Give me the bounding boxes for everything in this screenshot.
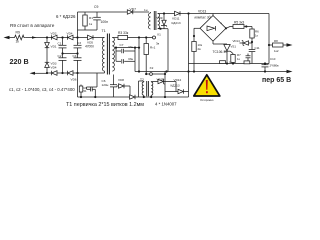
svg-text:Т2: Т2 — [140, 78, 144, 82]
capacitor C12 — [246, 54, 251, 64]
capacitor C3 — [74, 38, 82, 54]
svg-text:VD4: VD4 — [51, 66, 57, 70]
R1/C9 snubber loop — [78, 12, 128, 38]
wire from C4 column down — [77, 73, 79, 97]
svg-text:VD12: VD12 — [174, 78, 182, 82]
svg-text:VD6: VD6 — [71, 78, 77, 82]
wire — [86, 87, 88, 89]
bridge rectifier VD13 — [200, 14, 226, 42]
capacitor C11 — [249, 46, 260, 64]
capacitor C9 — [93, 5, 108, 30]
resistor R7 — [231, 53, 241, 65]
node — [138, 36, 140, 38]
svg-text:Осторожно: Осторожно — [200, 98, 214, 102]
svg-text:VD7: VD7 — [130, 8, 137, 12]
node — [61, 72, 63, 74]
vertical column with VD1 VD3 — [46, 38, 48, 43]
svg-text:пер 65 В: пер 65 В — [262, 77, 291, 84]
wire — [46, 68, 48, 74]
svg-text:R1: R1 — [89, 16, 93, 20]
svg-text:33н: 33н — [128, 45, 133, 49]
resistor R10 column inside box left — [192, 28, 203, 71]
wire x97 — [96, 73, 98, 87]
small box on bottom edge — [220, 60, 250, 64]
svg-text:Rт1: Rт1 — [150, 46, 156, 50]
svg-text:2в: 2в — [198, 47, 202, 51]
svg-text:6 * КД226: 6 * КД226 — [56, 14, 76, 19]
diode on bottom rail — [130, 95, 136, 99]
bottom rail — [78, 96, 189, 98]
capacitor C4 — [73, 54, 82, 74]
svg-text:с1, с2 - 1.0*400, с3, с4 - 0.4: с1, с2 - 1.0*400, с3, с4 - 0.47*400 — [9, 87, 75, 92]
resistor R9 — [13, 31, 25, 44]
output arrow bottom — [287, 70, 293, 73]
svg-text:С4: С4 — [73, 54, 77, 58]
svg-text:Х2: Х2 — [150, 66, 154, 70]
input terminal arrow bottom — [30, 72, 48, 75]
svg-text:Х1: Х1 — [157, 33, 161, 37]
svg-text:VD9: VD9 — [157, 16, 163, 20]
svg-text:120н: 120н — [102, 83, 109, 87]
capacitor C6a — [87, 87, 96, 97]
capacitor C10 — [262, 57, 280, 73]
transformer T2 — [139, 78, 153, 97]
capacitor C7 — [116, 43, 135, 53]
warning triangle — [194, 75, 220, 102]
connector circle X2 — [150, 66, 154, 76]
node — [225, 27, 227, 29]
top wire into box — [180, 13, 269, 15]
node — [46, 36, 48, 38]
svg-text:R9: R9 — [16, 31, 20, 35]
svg-text:1к: 1к — [16, 40, 20, 44]
svg-text:100н: 100н — [101, 20, 109, 24]
svg-text:VD10: VD10 — [157, 77, 165, 81]
node — [193, 70, 195, 72]
wire to bridge — [26, 37, 48, 39]
wire — [46, 48, 48, 62]
svg-text:С7: С7 — [120, 43, 124, 47]
svg-text:VD14: VD14 — [233, 39, 241, 43]
zener VD9 — [157, 12, 167, 28]
capacitor C8 — [116, 57, 135, 64]
regulator box outline — [189, 14, 270, 64]
svg-text:+: + — [220, 22, 222, 26]
wire X2 to node — [146, 72, 166, 76]
top rail — [47, 37, 88, 39]
capacitor C6 — [102, 75, 118, 98]
svg-text:С10: С10 — [270, 57, 276, 61]
node — [76, 36, 78, 38]
bottom rail wire — [47, 72, 105, 74]
thyristor VS1 — [213, 41, 237, 65]
C7 C8 loop — [115, 47, 140, 62]
svg-text:4 * 1N4007: 4 * 1N4007 — [155, 101, 177, 106]
svg-text:VD8: VD8 — [118, 78, 124, 82]
svg-text:С9: С9 — [94, 5, 98, 9]
svg-text:R8: R8 — [274, 39, 278, 43]
resistor R1 — [83, 12, 93, 30]
svg-text:С11: С11 — [255, 46, 260, 50]
diode VD5 top-right — [85, 35, 94, 48]
svg-text:1к2: 1к2 — [274, 49, 279, 53]
svg-text:С1: С1 — [58, 42, 62, 46]
node — [76, 52, 78, 54]
connector circle X1 — [153, 33, 162, 40]
diode VD7 — [127, 8, 149, 15]
node — [187, 12, 189, 14]
wire feedback return — [156, 29, 168, 72]
input terminal arrow top — [4, 36, 14, 39]
node — [94, 96, 96, 98]
node — [76, 72, 78, 74]
capacitor C1 — [58, 38, 67, 54]
svg-text:С3: С3 — [77, 41, 81, 45]
svg-text:33н: 33н — [128, 57, 133, 61]
vertical return wire x188 — [188, 14, 190, 98]
svg-text:VD4: VD4 — [67, 31, 73, 35]
svg-text:КД213: КД213 — [171, 84, 180, 88]
diode VD2 — [51, 31, 58, 40]
node — [61, 36, 63, 38]
svg-text:VD1: VD1 — [51, 45, 57, 49]
svg-text:3в: 3в — [156, 42, 160, 46]
diode VD6 — [68, 71, 77, 82]
svg-text:компас 3д: компас 3д — [195, 15, 211, 19]
feedback transformer T3 — [149, 11, 169, 30]
zener VD14 — [233, 39, 253, 46]
node — [150, 96, 152, 98]
resistor R5 — [226, 20, 252, 28]
wire vertical x139 — [138, 38, 140, 72]
node — [159, 28, 161, 30]
wire — [134, 61, 136, 71]
svg-text:R3 33к: R3 33к — [118, 31, 129, 35]
svg-text:VD2: VD2 — [51, 31, 57, 35]
svg-text:VD13: VD13 — [198, 9, 206, 13]
mid wire between cap columns — [63, 53, 78, 55]
resistor R6 — [250, 27, 259, 50]
svg-text:220 В: 220 В — [10, 57, 29, 66]
transformer T1 — [93, 29, 117, 75]
svg-text:R5 3к3: R5 3к3 — [234, 20, 244, 24]
output node and R8 — [268, 39, 293, 53]
node — [138, 70, 140, 72]
node — [143, 96, 145, 98]
diode VD8 — [117, 78, 131, 97]
node — [61, 52, 63, 54]
svg-text:С2: С2 — [58, 54, 62, 58]
svg-text:VS1: VS1 — [231, 45, 237, 49]
diode VD1 — [45, 43, 57, 49]
wire T2 left feed — [138, 81, 140, 97]
svg-text:2*680в: 2*680в — [270, 64, 280, 68]
wire to VD11 — [164, 13, 175, 15]
node — [46, 72, 48, 74]
svg-text:Т1: Т1 — [102, 29, 106, 33]
resistor R3 — [117, 31, 153, 39]
node — [165, 70, 167, 72]
diode VD12 — [165, 78, 189, 94]
resistor R4 column — [144, 36, 156, 75]
svg-text:R9 стоит в аппарате: R9 стоит в аппарате — [10, 23, 55, 28]
capacitor C2 — [58, 54, 67, 74]
svg-text:Т1 первичка 2*15 витков 1.2мм: Т1 первичка 2*15 витков 1.2мм — [66, 102, 144, 108]
diode VD3 — [45, 62, 57, 70]
capacitor C5 on bottom — [79, 85, 87, 98]
node — [187, 70, 189, 72]
diode VD11 — [172, 11, 181, 24]
svg-text:4700п: 4700п — [85, 45, 94, 49]
connector arrow mid — [32, 36, 37, 39]
svg-text:ТС106-10: ТС106-10 — [213, 50, 228, 54]
node — [80, 96, 82, 98]
diode VD4 — [67, 31, 74, 40]
zener VD10 — [151, 74, 176, 98]
svg-text:КД213: КД213 — [172, 21, 181, 25]
output rail to the right — [135, 71, 289, 73]
diode lower-left — [52, 71, 58, 76]
svg-text:1н: 1н — [144, 8, 148, 12]
